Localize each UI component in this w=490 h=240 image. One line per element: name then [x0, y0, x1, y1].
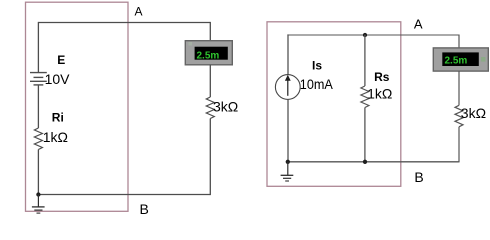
wire display to 3k resistor [209, 65, 211, 97]
ammeter display left (2.5m) [185, 41, 232, 65]
wire between battery and Ri [37, 85, 39, 128]
svg-text:Rs: Rs [374, 70, 390, 84]
wire Rs branch upper [364, 35, 366, 86]
svg-text:3kΩ: 3kΩ [213, 99, 238, 115]
selection box around Norton source circuit [267, 22, 401, 187]
current source arrow [287, 81, 289, 96]
svg-text:Is: Is [312, 58, 322, 72]
selection box around Thevenin source circuit [26, 2, 129, 211]
junction dot Rs top [363, 33, 367, 37]
svg-text:A: A [135, 5, 143, 19]
svg-text:E: E [57, 53, 65, 67]
wire 3k resistor to bottom [209, 119, 211, 196]
svg-text:10V: 10V [45, 71, 71, 87]
wire right branch upper (to ammeter) [209, 22, 211, 41]
svg-text:1kΩ: 1kΩ [367, 86, 392, 102]
svg-text:3kΩ: 3kΩ [461, 105, 486, 121]
junction dot at ground node [36, 192, 40, 196]
wire display to 3k right [458, 71, 460, 105]
wire Rs to bottom [364, 108, 366, 163]
wire left branch upper [37, 22, 39, 73]
svg-text:B: B [414, 169, 423, 185]
current source Is circle [275, 75, 300, 100]
resistor 3kΩ (right load) zigzag [455, 105, 463, 127]
svg-text:1kΩ: 1kΩ [43, 129, 68, 145]
wire Ri to bottom [37, 150, 39, 196]
ammeter display right (2.5m) [433, 48, 488, 71]
resistor Ri zigzag [34, 128, 42, 150]
svg-text:2.5m: 2.5m [445, 56, 468, 67]
svg-text:Ri: Ri [52, 111, 64, 125]
junction dot bottom left of Norton [286, 160, 290, 164]
wire load branch upper right [458, 35, 460, 49]
ground symbol right [281, 162, 294, 181]
wire top left circuit [38, 22, 210, 24]
wire bottom right circuit [287, 161, 458, 163]
svg-text:2.5m: 2.5m [197, 50, 220, 61]
svg-text:B: B [140, 201, 149, 217]
resistor 3kΩ (left load) zigzag [206, 97, 214, 119]
junction dot Rs bottom [363, 160, 367, 164]
ground symbol left [32, 195, 45, 214]
svg-text:10mA: 10mA [300, 76, 334, 92]
wire top right circuit [287, 34, 459, 36]
wire bottom left circuit [38, 194, 210, 196]
wire current source to bottom [287, 99, 289, 162]
resistor Rs zigzag [361, 86, 369, 108]
wire 3k right to bottom [458, 127, 460, 163]
svg-text:A: A [414, 16, 423, 31]
wire current source branch upper [287, 34, 289, 74]
battery E (DC source) [30, 73, 47, 85]
